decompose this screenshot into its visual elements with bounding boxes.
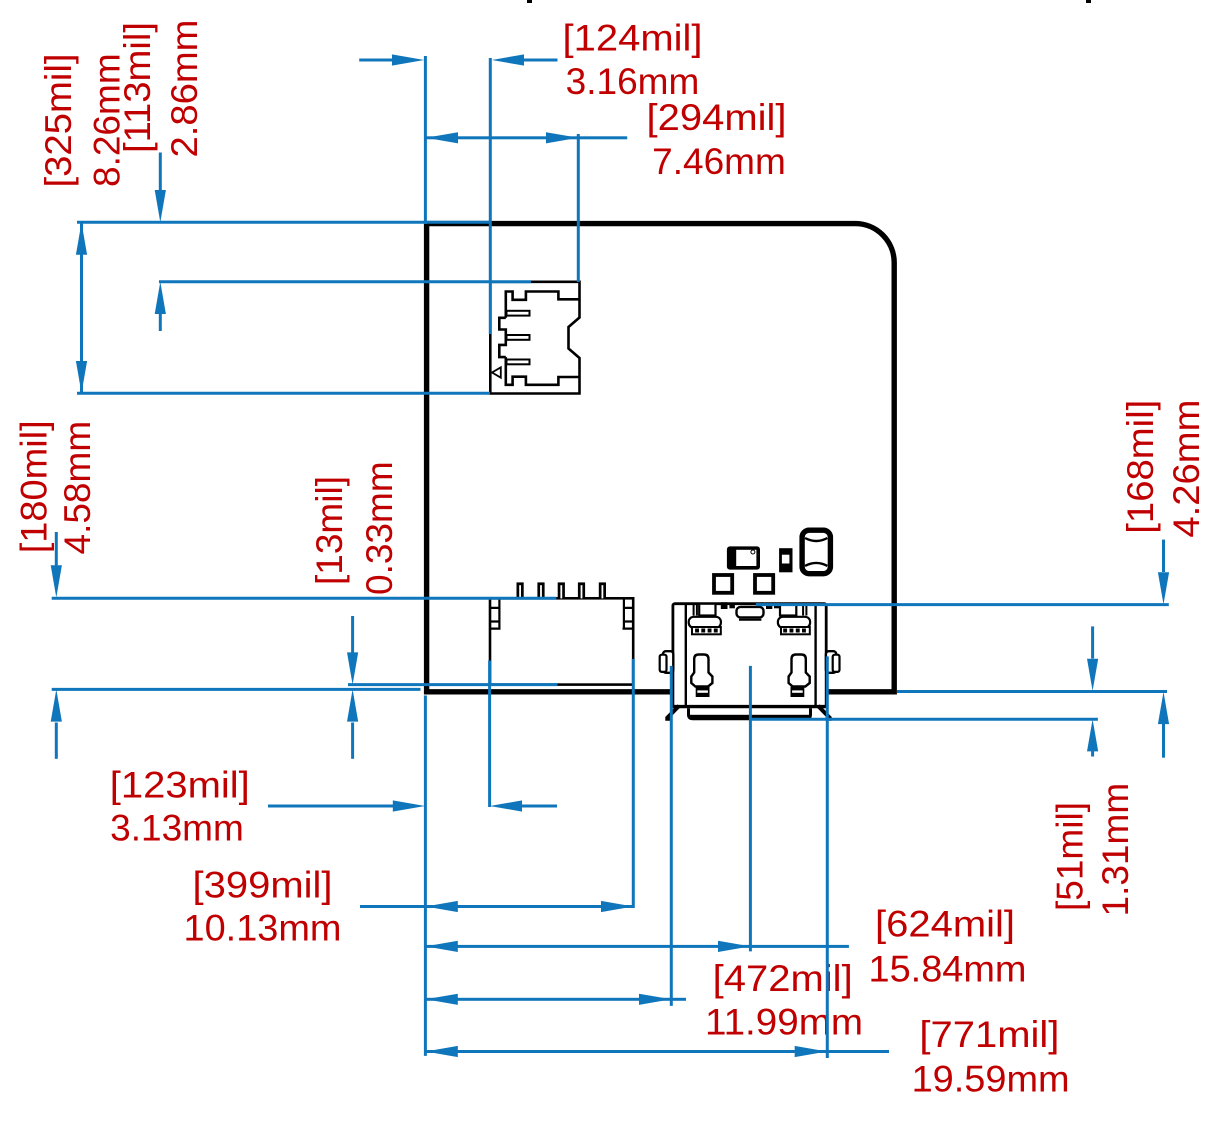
connector J2 pin 3 <box>558 582 565 598</box>
connector J3 left wing <box>665 706 679 719</box>
connector J3 center tongue <box>737 607 764 618</box>
dim 180mil down arrow <box>55 532 58 566</box>
ext line J2-left bottom <box>488 661 491 808</box>
clipped title glyph fragment (parenthesis) <box>1086 0 1091 3</box>
connector J3 right wing <box>818 706 832 719</box>
board outline <box>427 224 895 692</box>
svg-text:4.58mm: 4.58mm <box>57 421 98 555</box>
dim 13mil down arrow <box>351 616 354 653</box>
connector J1 (JST) outer courtyard <box>490 282 579 394</box>
svg-text:15.84mm: 15.84mm <box>869 949 1027 990</box>
ext line usb-lip-bottom right <box>750 718 1098 721</box>
svg-text:[113mil]: [113mil] <box>117 22 158 153</box>
ext line board-bottom right <box>897 690 1167 693</box>
ext line J2-bottom <box>348 683 558 686</box>
svg-text:[123mil]: [123mil] <box>110 764 250 805</box>
connector J2 pin 4 <box>578 582 585 598</box>
connector J3 right post <box>789 655 810 698</box>
dim 180mil up arrow <box>55 723 58 759</box>
connector J3 bottom lip <box>687 708 812 720</box>
connector J2 left side tab <box>490 598 501 629</box>
dim 51mil up arrow <box>1091 751 1094 756</box>
ext line board-bottom left <box>52 688 421 691</box>
ext line J1-right top <box>577 134 580 282</box>
connector J3 left lug <box>660 651 674 673</box>
svg-text:[399mil]: [399mil] <box>193 864 333 905</box>
connector J3 (micro-USB) shell <box>673 604 826 707</box>
ext line board-top <box>77 221 489 224</box>
connector J3 top edge marks <box>721 602 728 609</box>
ext line board-left top <box>424 56 427 224</box>
connector J3 left boot <box>689 617 721 628</box>
ext line usb-left bottom <box>670 666 673 1006</box>
component R1 <box>779 548 792 572</box>
connector J1 pin 1 <box>507 311 530 316</box>
svg-text:[472mil]: [472mil] <box>713 958 853 999</box>
connector J3 right lug <box>826 651 840 673</box>
ext line J2-top <box>52 597 557 600</box>
ext line board-left bottom <box>424 696 427 1056</box>
dim 624mil line with arrows <box>426 945 849 948</box>
dim 123mil left arrow <box>268 805 394 808</box>
svg-text:[624mil]: [624mil] <box>875 904 1015 945</box>
svg-text:11.99mm: 11.99mm <box>705 1001 863 1042</box>
dim 51mil down arrow <box>1091 626 1094 658</box>
svg-text:7.46mm: 7.46mm <box>652 141 786 182</box>
svg-text:[180mil]: [180mil] <box>14 420 55 553</box>
connector J3 right boot <box>778 617 810 628</box>
dim 124mil left arrow <box>359 59 393 62</box>
component C3 <box>755 575 773 593</box>
ext line J2-right bottom <box>632 659 635 908</box>
dim 325mil double arrow <box>80 223 83 394</box>
ext line usb-top right <box>756 603 1169 606</box>
ext line J1-top <box>159 280 531 283</box>
svg-text:[168mil]: [168mil] <box>1120 400 1161 534</box>
dim 168mil up arrow <box>1162 724 1165 758</box>
dim 294mil line with arrows <box>426 136 627 139</box>
connector J2 (FPC) body <box>490 598 633 684</box>
component C1 <box>802 530 830 574</box>
connector J1 pin 2 <box>507 335 530 340</box>
svg-text:19.59mm: 19.59mm <box>912 1059 1070 1100</box>
svg-text:[124mil]: [124mil] <box>563 18 703 59</box>
ext line usb-center bottom <box>749 666 752 952</box>
svg-text:[771mil]: [771mil] <box>919 1014 1059 1055</box>
connector J2 pin 1 <box>517 582 524 598</box>
component C2 <box>714 575 732 593</box>
svg-text:3.13mm: 3.13mm <box>110 808 244 849</box>
connector J1 pin 3 <box>507 360 530 365</box>
svg-text:3.16mm: 3.16mm <box>566 61 700 102</box>
connector J1 body outline <box>499 292 579 385</box>
dim 123mil right arrow <box>522 805 557 808</box>
connector J3 shell inner walls <box>686 604 816 706</box>
dim 124mil right arrow <box>524 59 558 62</box>
connector J2 pin 5 <box>599 582 606 598</box>
connector J2 right side tab <box>623 598 634 629</box>
ext line J1-bottom <box>77 392 490 395</box>
component D1 <box>727 546 760 569</box>
svg-text:1.31mm: 1.31mm <box>1095 783 1136 917</box>
dim 113mil up arrow <box>159 314 162 332</box>
connector J3 left teeth <box>692 627 721 634</box>
svg-text:[13mil]: [13mil] <box>309 476 350 585</box>
svg-text:2.86mm: 2.86mm <box>164 20 205 158</box>
dim 399mil line with arrows <box>360 905 633 908</box>
svg-text:[294mil]: [294mil] <box>647 97 787 138</box>
dim 168mil down arrow <box>1162 540 1165 572</box>
dim 13mil up arrow <box>351 723 354 759</box>
svg-text:0.33mm: 0.33mm <box>359 461 400 595</box>
svg-text:10.13mm: 10.13mm <box>184 908 342 949</box>
ext line J1-left top <box>489 58 492 334</box>
connector J3 left post <box>691 655 712 698</box>
connector J2 pin 2 <box>537 582 544 598</box>
connector J3 left pin block <box>694 604 697 616</box>
connector J3 right teeth <box>781 627 810 634</box>
dim 113mil down arrow <box>159 153 162 192</box>
connector J3 right pin block <box>803 604 806 616</box>
svg-text:4.26mm: 4.26mm <box>1166 400 1207 538</box>
connector J1 pin-1 triangle marker <box>492 367 501 377</box>
ext line usb-right bottom <box>826 656 829 1058</box>
svg-text:[51mil]: [51mil] <box>1050 802 1091 911</box>
dim 771mil line with arrows <box>426 1050 889 1053</box>
dim 472mil line with arrows <box>426 998 686 1001</box>
clipped title glyph fragment (p descender) <box>527 0 532 3</box>
svg-text:[325mil]: [325mil] <box>38 54 79 188</box>
